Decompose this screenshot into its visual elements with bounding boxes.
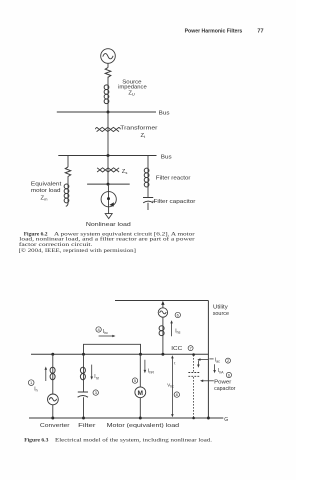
arrowhead utility into top rail xyxy=(161,301,164,305)
node motor at bottom rail xyxy=(139,417,142,420)
arrow Ihc right xyxy=(99,335,116,338)
svg-text:Bus: Bus xyxy=(161,155,172,161)
svg-text:Power: Power xyxy=(214,379,231,385)
node bus2 junction xyxy=(107,154,110,157)
wire motor to bottom rail xyxy=(139,398,141,418)
inductor converter xyxy=(50,367,55,380)
wire reactor to capacitor xyxy=(147,187,149,198)
node converter at mid rail xyxy=(51,353,54,356)
circled 1 xyxy=(28,380,34,386)
motor branch wire from bus2 xyxy=(67,156,69,168)
node motor at mid rail xyxy=(139,353,142,356)
svg-text:Zs: Zs xyxy=(122,169,128,175)
node center dot of nonlinear load xyxy=(107,197,110,200)
label utility source xyxy=(213,304,229,317)
svg-text:M: M xyxy=(138,390,144,397)
capacitor filter xyxy=(143,198,153,203)
svg-text:Zm: Zm xyxy=(41,196,49,202)
ac source V1 xyxy=(101,49,116,64)
hop wire Ihc path xyxy=(84,344,141,354)
arrow IhR down xyxy=(144,360,147,373)
circled 6b xyxy=(226,372,231,377)
wire bus1 to bus2 xyxy=(107,112,109,156)
svg-text:Nonlinear load: Nonlinear load xyxy=(86,222,131,228)
circled 3 xyxy=(93,390,98,395)
wire converter branch upper xyxy=(52,354,54,367)
wire R to L xyxy=(107,77,109,86)
svg-text:6: 6 xyxy=(228,373,230,377)
svg-text:ZU: ZU xyxy=(128,90,135,96)
svg-text:Utility: Utility xyxy=(213,304,228,310)
wire top rail to utility source xyxy=(162,304,164,308)
svg-text:77: 77 xyxy=(257,28,263,34)
circled 6 utility xyxy=(175,312,180,317)
bar node below Zs xyxy=(87,183,130,185)
arrow Ihf down xyxy=(90,365,93,380)
node dashed cap at mid rail xyxy=(192,353,195,356)
svg-text:Bus: Bus xyxy=(159,110,170,116)
node dashed cap at bottom rail xyxy=(192,417,195,420)
dashed wire power capacitor to bottom rail xyxy=(193,377,195,418)
label transformer xyxy=(120,126,157,139)
wire nonlinear load down xyxy=(108,207,110,214)
circled 8 xyxy=(174,392,179,397)
wire filter capacitor to bottom rail xyxy=(83,397,85,418)
ac source utility xyxy=(158,308,167,317)
resistor source R xyxy=(105,68,111,78)
nonlinear load circle xyxy=(101,192,116,207)
svg-text:source: source xyxy=(213,311,229,317)
label power capacitor xyxy=(214,379,235,392)
caption figure 6.2 xyxy=(19,231,195,253)
arrow IhA down xyxy=(213,364,216,373)
arrow Iac left xyxy=(197,358,208,361)
arrow Ih up xyxy=(45,367,48,382)
circled 4 xyxy=(96,327,101,332)
arrow Vhc double-headed xyxy=(171,355,174,417)
inductor filter reactor xyxy=(144,168,149,187)
wire utility source to coil xyxy=(162,317,164,325)
wire capacitor down xyxy=(147,203,149,210)
wire converter coil to source xyxy=(52,380,54,394)
wire filter branch upper xyxy=(83,354,85,367)
wire converter source to bottom rail xyxy=(52,405,54,418)
inductor source L xyxy=(104,85,109,104)
svg-text:Power Harmonic Filters: Power Harmonic Filters xyxy=(185,28,243,34)
wire V1 to R xyxy=(107,63,109,67)
right vertical rail xyxy=(207,301,209,419)
svg-text:motor load: motor load xyxy=(31,188,61,194)
leader tick Iac xyxy=(209,358,213,360)
label equivalent motor load Zm xyxy=(31,182,62,202)
node bus1 junction xyxy=(107,111,110,114)
leader arrow power capacitor xyxy=(200,380,214,383)
label source impedance ZU xyxy=(118,79,147,96)
svg-text:G: G xyxy=(224,417,228,423)
svg-text:capacitor: capacitor xyxy=(214,386,235,392)
dashed wire to power capacitor xyxy=(193,355,195,372)
svg-text:ICC: ICC xyxy=(171,346,182,352)
label filter capacitor leader xyxy=(152,200,155,202)
svg-text:Converter: Converter xyxy=(40,423,70,429)
inductor filter xyxy=(80,367,85,380)
svg-text:Filter: Filter xyxy=(78,423,95,429)
caption figure 6.3 xyxy=(24,437,212,444)
svg-text:Filter capacitor: Filter capacitor xyxy=(154,199,196,205)
svg-text:Motor (equivalent) load: Motor (equivalent) load xyxy=(107,423,180,429)
svg-text:impedance: impedance xyxy=(118,85,147,91)
inductor utility system xyxy=(159,326,164,336)
wire bus2 down middle branch xyxy=(107,156,109,185)
node filter at bottom rail xyxy=(82,417,85,420)
inductor motor load xyxy=(64,184,69,206)
wire motor branch upper xyxy=(139,354,141,387)
wire bar to nonlinear load xyxy=(107,184,109,207)
svg-text:2: 2 xyxy=(227,359,229,363)
node bar junction xyxy=(107,183,110,186)
page header xyxy=(185,28,264,34)
circled 5 xyxy=(132,378,137,383)
capacitor filter fig63 xyxy=(78,392,88,397)
svg-text:Equivalent: Equivalent xyxy=(31,182,62,188)
mid rail ICC bus xyxy=(31,353,208,355)
wire resistor to motor inductor xyxy=(67,176,69,185)
wire utility coil to mid rail xyxy=(162,336,164,355)
bottom rail G xyxy=(29,417,223,419)
motor M circle xyxy=(135,387,146,398)
power capacitor dashed plates xyxy=(188,373,199,377)
arrowhead on nonlinear load circle xyxy=(109,202,114,206)
circled 7 xyxy=(188,346,193,351)
node converter at bottom rail xyxy=(51,417,54,420)
ac source converter xyxy=(48,394,59,405)
arrow into power capacitor down xyxy=(197,360,200,367)
node filter at mid rail xyxy=(82,353,85,356)
svg-text:Transformer: Transformer xyxy=(120,126,157,132)
node utility at mid rail xyxy=(161,353,164,356)
bus 1 xyxy=(57,111,156,113)
filter branch wire from bus2 xyxy=(147,156,149,169)
arrow Ihs up xyxy=(170,320,173,336)
open arrow nonlinear load xyxy=(105,214,112,219)
svg-text:[© 2004, IEEE, reprinted with: [© 2004, IEEE, reprinted with permission… xyxy=(19,247,137,254)
bus 2 xyxy=(58,155,156,157)
impedance Zs zigzag xyxy=(97,168,119,172)
wire filter coil to capacitor xyxy=(83,380,85,392)
node right rail at bottom xyxy=(207,417,210,420)
wire L to bus1 xyxy=(107,104,109,113)
resistor motor load xyxy=(65,167,70,177)
labels under figure 6.3 xyxy=(40,423,179,429)
transformer Zt zigzag xyxy=(95,127,120,131)
top rail utility xyxy=(115,300,208,302)
circled 2 xyxy=(226,358,231,363)
svg-text:Filter reactor: Filter reactor xyxy=(156,176,191,182)
